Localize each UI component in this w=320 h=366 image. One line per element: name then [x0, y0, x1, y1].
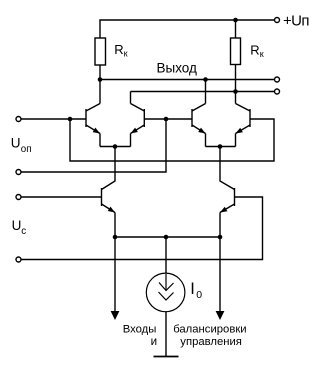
transistor Q3 (upper pair B, left) — [192, 80, 206, 147]
svg-text:Выход: Выход — [157, 60, 198, 75]
wire: Q2-Q3 base link — [144, 118, 192, 120]
wire: output line 1 — [100, 79, 274, 81]
node: pair B emitter junction — [218, 144, 223, 149]
svg-text:Rк: Rк — [250, 43, 263, 60]
wire: input 2 route to Q2/Q3 bases — [22, 119, 167, 172]
wire: output line 2 — [131, 91, 275, 93]
svg-text:с: с — [21, 226, 26, 237]
wire: lower emitter rail — [115, 236, 220, 238]
node: Q1 base / cross-couple junction — [68, 117, 73, 122]
wire: Q1 base line — [22, 118, 87, 120]
transistor Q6 (lower pair, right, mirrored) — [220, 188, 235, 237]
wire: Q6 collector riser to pair B — [220, 147, 235, 190]
svg-text:оп: оп — [21, 144, 32, 155]
svg-text:I: I — [190, 280, 195, 298]
node: rail center junction — [164, 235, 169, 240]
node: Q2/Q3 base junction — [164, 117, 169, 122]
svg-text:U: U — [12, 218, 22, 233]
node: R2 / Q4 collector / output line 2 junction — [233, 89, 238, 94]
node: pair A emitter junction — [113, 144, 118, 149]
svg-text:Rк: Rк — [114, 42, 127, 59]
wire: pair A common emitter bar — [100, 146, 131, 148]
svg-text:управления: управления — [180, 336, 242, 348]
transistor Q5 (lower pair, left) — [102, 188, 116, 237]
wire: Q5 collector riser to pair A — [102, 147, 116, 190]
terminal output 2 — [275, 89, 280, 94]
current source I0 — [146, 237, 185, 357]
wire: R2 top lead — [235, 20, 237, 38]
node: rail right junction — [218, 235, 223, 240]
svg-text:Входы: Входы — [123, 323, 157, 335]
wire: R2 bottom lead — [235, 65, 237, 92]
terminal output 1 — [275, 77, 280, 82]
terminal input Uc 1 — [16, 195, 21, 200]
terminal input Uop 1 — [16, 117, 21, 122]
terminal input Uc 2 (control) — [16, 257, 21, 262]
transistor Q1 (upper pair A, left) — [86, 80, 100, 147]
svg-text:балансировки: балансировки — [173, 323, 246, 335]
wire: R1 bottom lead — [99, 65, 101, 80]
svg-text:+Uп: +Uп — [283, 12, 309, 29]
transistor Q2 (upper pair A, right, mirrored) — [131, 92, 145, 147]
node: Q3 collector on output line 1 — [203, 77, 208, 82]
wire: Q5 base line — [22, 196, 102, 198]
node: rail left junction — [113, 235, 118, 240]
wire: left control arrow — [114, 237, 116, 312]
wire: Q4 base lead to cross-couple — [70, 119, 274, 161]
resistor R2 (Rk) — [231, 38, 241, 65]
node: junction of R2 branch on supply rail — [233, 18, 238, 23]
svg-text:0: 0 — [196, 289, 202, 301]
resistor R1 (Rk) — [95, 38, 106, 65]
ground — [154, 356, 179, 358]
wire: +Up supply rail — [100, 20, 274, 38]
wire: pair B common emitter bar — [206, 146, 236, 148]
terminal input Uop 2 — [16, 170, 21, 175]
transistor Q4 (upper pair B, right, mirrored) — [236, 92, 251, 147]
wire: right control arrow — [219, 237, 221, 312]
node: R1 / Q1 collector / output line 1 junction — [98, 77, 103, 82]
terminal +Up — [275, 18, 280, 23]
wire: Q6 base route under circuit — [22, 197, 263, 260]
svg-text:U: U — [11, 136, 21, 151]
svg-text:и: и — [151, 335, 157, 348]
